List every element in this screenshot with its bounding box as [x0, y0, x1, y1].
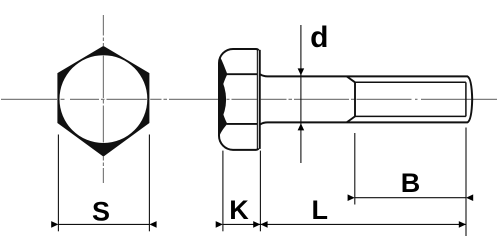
dimension d leader line: [300, 25, 302, 163]
thread runout diagonal top: [347, 76, 355, 82]
K/L shared extension line (washer face): [259, 151, 261, 232]
K arrow left: [216, 221, 223, 228]
K extension line left: [222, 151, 224, 232]
inscribed circle (across-flats): [60, 55, 148, 143]
head face line upper: [227, 73, 257, 75]
svg-text:K: K: [229, 195, 249, 225]
dimension d arrow down: [298, 68, 305, 75]
B extension line left: [354, 133, 356, 205]
B arrow left: [348, 194, 355, 201]
thread minor diameter line top: [355, 81, 466, 83]
thread end vertical line at tip: [465, 82, 467, 116]
head chamfer shading middle lens: [220, 76, 226, 123]
centerline vertical (hex head end view): [102, 15, 104, 183]
L arrow right: [459, 221, 466, 228]
B/L shared extension line right: [465, 128, 467, 237]
B arrow right: [466, 194, 473, 201]
svg-text:B: B: [401, 168, 421, 198]
svg-text:L: L: [311, 195, 328, 225]
thread runout diagonal bottom: [347, 116, 355, 122]
K arrow right: [260, 221, 267, 228]
K-L dimension line: [223, 223, 466, 225]
S arrow right: [149, 221, 156, 228]
centerline horizontal (bolt axis): [1, 98, 497, 100]
S dimension line: [58, 223, 149, 225]
dimension d arrow up: [298, 123, 305, 130]
S extension line left: [57, 135, 59, 232]
washer face (head bearing face bar): [256, 50, 258, 149]
head face line lower: [227, 123, 257, 125]
S extension line right: [148, 135, 150, 232]
B dimension line: [355, 197, 466, 199]
svg-text:d: d: [310, 21, 328, 54]
L arrow left: [253, 221, 260, 228]
shank and thread outline with tip: [260, 74, 472, 124]
thread start vertical line: [354, 82, 356, 116]
head chamfer shading bottom wedge: [220, 102, 228, 135]
thread minor diameter line bottom: [355, 115, 466, 117]
head chamfer shading top wedge: [220, 56, 228, 96]
svg-text:S: S: [92, 196, 110, 226]
bolt head side view outline: [219, 49, 259, 150]
S arrow left: [51, 221, 58, 228]
hex head end view (hexagon): [59, 47, 149, 155]
